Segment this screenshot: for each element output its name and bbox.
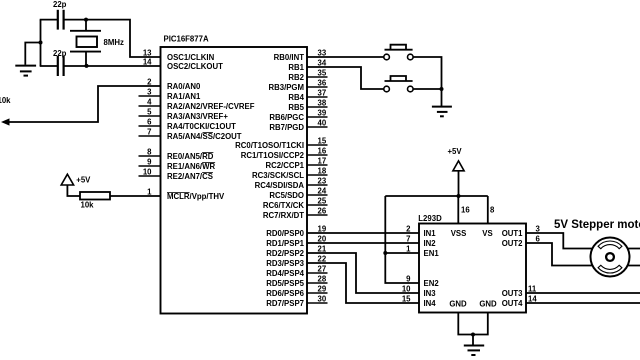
svg-text:RB1: RB1 [288,63,304,72]
svg-text:9: 9 [406,275,411,284]
wire OUT3 pin 11 to motor (off-page) [526,292,640,294]
wire EN vertical to EN2 [385,196,419,283]
power +5V (MCLR pull-up) [61,174,91,185]
svg-text:RE1/AN6/WR: RE1/AN6/WR [167,162,215,171]
wire RD2 pin 21 to IN3 [307,253,419,293]
push button S2 [384,76,413,92]
svg-text:36: 36 [318,79,327,88]
svg-text:IN2: IN2 [424,239,437,248]
svg-text:22p: 22p [53,0,67,9]
svg-text:IN4: IN4 [424,299,437,308]
label M1 5V Stepper motor [554,219,640,231]
resistor R1 10k [80,192,110,210]
svg-text:RA3/AN3/VREF+: RA3/AN3/VREF+ [167,112,228,121]
svg-text:RD0/PSP0: RD0/PSP0 [266,229,304,238]
svg-text:RA4/T0CKI/C1OUT: RA4/T0CKI/C1OUT [167,122,236,131]
svg-text:8: 8 [490,206,495,215]
svg-text:EN2: EN2 [424,279,440,288]
svg-text:14: 14 [143,58,152,67]
svg-text:35: 35 [318,69,327,78]
svg-text:13: 13 [143,49,152,58]
svg-text:RD2/PSP2: RD2/PSP2 [266,249,304,258]
wire RD1 pin 20 to IN2 [307,242,419,244]
U2 pin labels [424,229,440,308]
svg-text:RD1/PSP1: RD1/PSP1 [266,239,304,248]
junction node XT2 [85,64,89,68]
svg-text:RB6/PGC: RB6/PGC [269,113,304,122]
U1 left pin stubs (unconnected pins 3-10) [139,96,161,176]
svg-text:29: 29 [318,285,327,294]
svg-text:RC3/SCK/SCL: RC3/SCK/SCL [252,171,304,180]
svg-text:+5V: +5V [448,147,463,156]
svg-text:RE0/AN5/RD: RE0/AN5/RD [167,152,214,161]
capacitor C1 22p (top) [53,0,67,30]
svg-text:27: 27 [318,265,327,274]
svg-text:17: 17 [318,157,327,166]
wire RD0 pin 19 to IN1 [307,232,419,234]
svg-text:OUT3: OUT3 [502,289,523,298]
U1 right pin numbers [318,49,327,304]
U1 left pin numbers [143,49,152,197]
wire S2 to ground node [413,88,441,90]
svg-text:GND: GND [479,300,497,309]
wire OUT4 pin 14 to motor (off-page) [526,302,640,304]
svg-text:+5V: +5V [76,176,91,185]
svg-text:26: 26 [318,207,327,216]
svg-text:8: 8 [147,148,152,157]
capacitor C2 22p (bottom) [53,49,67,76]
svg-text:30: 30 [318,295,327,304]
off-page arrow (pot wiper) [1,118,10,125]
svg-text:1: 1 [406,245,411,254]
wire C2 right to node XT2 / OSC2 pin 14 [64,65,160,67]
svg-text:RB2: RB2 [288,73,304,82]
svg-text:RB7/PGD: RB7/PGD [269,123,304,132]
svg-text:GND: GND [449,300,467,309]
wire S1 to ground node [413,57,441,89]
svg-text:39: 39 [318,109,327,118]
U1 right pin labels [235,53,305,308]
svg-text:15: 15 [318,137,327,146]
svg-text:4: 4 [147,98,152,107]
svg-text:10k: 10k [0,96,11,105]
svg-text:23: 23 [318,177,327,186]
svg-text:PIC16F877A: PIC16F877A [164,35,209,44]
svg-text:RE2/AN7/CS: RE2/AN7/CS [167,172,213,181]
svg-text:3: 3 [147,88,152,97]
wire supply rail EN1-VSS-VS [385,195,488,197]
wire C1 left to vertical [40,19,57,21]
svg-text:RD3/PSP3: RD3/PSP3 [266,259,304,268]
svg-text:16: 16 [318,147,327,156]
IC U1 PIC16F877A body [161,35,308,314]
svg-text:RC6/TX/CK: RC6/TX/CK [263,201,305,210]
wire OUT1 pin 3 to motor coil A [526,233,640,249]
svg-text:RC2/CCP1: RC2/CCP1 [265,161,304,170]
svg-text:8MHz: 8MHz [104,38,124,47]
svg-text:IN3: IN3 [424,289,437,298]
svg-text:2: 2 [406,225,411,234]
svg-text:OUT2: OUT2 [502,239,523,248]
ground (L293D) [464,335,484,356]
svg-text:RD6/PSP6: RD6/PSP6 [266,289,304,298]
svg-text:RC1/T1OSI/CCP2: RC1/T1OSI/CCP2 [241,151,305,160]
wire EN1 branch [385,252,419,254]
wire C2 left to vertical [40,65,57,67]
svg-text:5: 5 [147,108,152,117]
junction caps to ground [39,41,43,45]
svg-text:RD5/PSP5: RD5/PSP5 [266,279,304,288]
wire RA0 to off-page pot [7,86,161,122]
svg-text:25: 25 [318,197,327,206]
wire OUT2 pin 6 to motor coil B [526,243,640,266]
svg-text:RA0/AN0: RA0/AN0 [167,82,201,91]
U2 pin numbers [402,225,411,304]
wire left vertical joining C1 and C2 [40,20,42,66]
junction node XT1 [84,18,88,22]
wire R1 to MCLR pin 1 [110,195,161,197]
wire RD3 pin 22 to IN4 [307,263,419,303]
junction GND [471,333,475,337]
svg-text:MCLR/Vpp/THV: MCLR/Vpp/THV [167,192,225,201]
svg-text:10: 10 [143,168,152,177]
svg-text:1: 1 [147,188,152,197]
svg-text:RA1/AN1: RA1/AN1 [167,92,201,101]
svg-text:OSC1/CLKIN: OSC1/CLKIN [167,53,215,62]
svg-text:38: 38 [318,99,327,108]
svg-text:RA2/AN2/VREF-/CVREF: RA2/AN2/VREF-/CVREF [167,102,255,111]
svg-text:40: 40 [318,119,327,128]
svg-text:RC4/SDI/SDA: RC4/SDI/SDA [255,181,305,190]
crystal X1 8MHz [70,20,124,66]
svg-text:RB0/INT: RB0/INT [274,53,305,62]
svg-text:RB3/PGM: RB3/PGM [268,83,304,92]
svg-text:9: 9 [147,158,152,167]
junction buttons ground [440,87,444,91]
wire C1 right to node XT1 [64,19,86,21]
svg-text:EN1: EN1 [424,249,440,258]
svg-text:RB4: RB4 [288,93,304,102]
wire VSS pin 16 [457,196,459,224]
stepper motor M1 [591,238,630,277]
power +5V (L293D supply) [448,147,465,171]
svg-text:28: 28 [318,275,327,284]
wire RB1 pin 34 to button S2 [307,67,384,89]
svg-text:7: 7 [406,235,410,244]
push button S1 [384,45,413,60]
svg-text:6: 6 [147,118,152,127]
svg-text:VSS: VSS [451,229,467,238]
svg-text:37: 37 [318,89,327,98]
svg-text:RC0/T1OSO/T1CKI: RC0/T1OSO/T1CKI [235,141,304,150]
junction EN1 [383,251,387,255]
svg-text:22p: 22p [53,49,67,58]
svg-text:OSC2/CLKOUT: OSC2/CLKOUT [167,62,223,71]
wire +5V down to supply rail [458,171,460,196]
IC U2 L293D body [418,214,526,313]
U1 right pin stubs (unconnected) [307,77,328,303]
junction +5V rail [457,194,461,198]
wire XT1 to OSC1 pin 13 [86,20,161,57]
wire GND pins to ground [458,313,488,335]
svg-text:RC7/RX/DT: RC7/RX/DT [263,211,304,220]
svg-text:IN1: IN1 [424,229,437,238]
label 10k (pot, clipped at edge) [0,96,11,105]
svg-text:24: 24 [318,187,327,196]
svg-text:2: 2 [147,78,152,87]
svg-text:10k: 10k [81,201,95,210]
wire +5V to resistor R1 [67,185,80,196]
svg-text:RC5/SDO: RC5/SDO [269,191,304,200]
svg-text:RD7/PSP7: RD7/PSP7 [266,299,304,308]
svg-text:RA5/AN4/SS/C2OUT: RA5/AN4/SS/C2OUT [167,132,242,141]
svg-text:7: 7 [147,128,151,137]
wire RB0 pin 33 to button S1 [307,56,384,58]
svg-text:16: 16 [461,206,470,215]
wire junction to ground [25,43,40,65]
wire VS pin 8 [487,196,489,224]
svg-text:18: 18 [318,167,327,176]
svg-text:5V Stepper motor: 5V Stepper motor [554,219,640,231]
svg-text:OUT1: OUT1 [502,229,523,238]
svg-text:L293D: L293D [418,214,442,223]
svg-text:RB5: RB5 [288,103,304,112]
svg-text:15: 15 [402,295,411,304]
ground (crystal) [15,66,36,76]
svg-text:RD4/PSP4: RD4/PSP4 [266,269,304,278]
svg-text:10: 10 [402,285,411,294]
svg-text:VS: VS [482,229,492,238]
svg-text:OUT4: OUT4 [502,299,523,308]
ground (buttons) [432,89,452,116]
U1 left pin labels [167,53,255,201]
